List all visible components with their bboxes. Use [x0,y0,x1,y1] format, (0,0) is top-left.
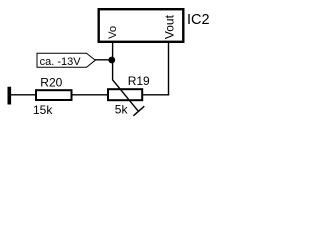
svg-text:15k: 15k [33,103,53,117]
potentiometer R19 body [108,89,142,100]
wire terminal to R20 [11,94,37,96]
wire R20 right to R19 left [72,94,108,96]
wire Vout pin down [168,41,170,96]
wire Vo pin down [112,41,114,80]
svg-text:IC2: IC2 [187,12,210,28]
svg-text:R19: R19 [128,74,150,88]
net flag ca. -13V [37,53,95,67]
svg-text:5k: 5k [115,102,129,116]
svg-text:Vo: Vo [107,26,119,39]
wire R19 right to riser [142,94,169,96]
wire flag to junction [95,59,112,61]
svg-text:ca. -13V: ca. -13V [40,56,82,68]
junction dot [108,57,115,64]
potentiometer R19 wiper T-bar [133,106,144,116]
IC U box IC2 [99,9,184,42]
potentiometer R19 arrow shaft [113,80,139,112]
svg-text:R20: R20 [40,75,62,89]
resistor R20 body [36,90,72,100]
svg-text:Vout: Vout [163,14,177,39]
terminal bar [8,87,12,105]
